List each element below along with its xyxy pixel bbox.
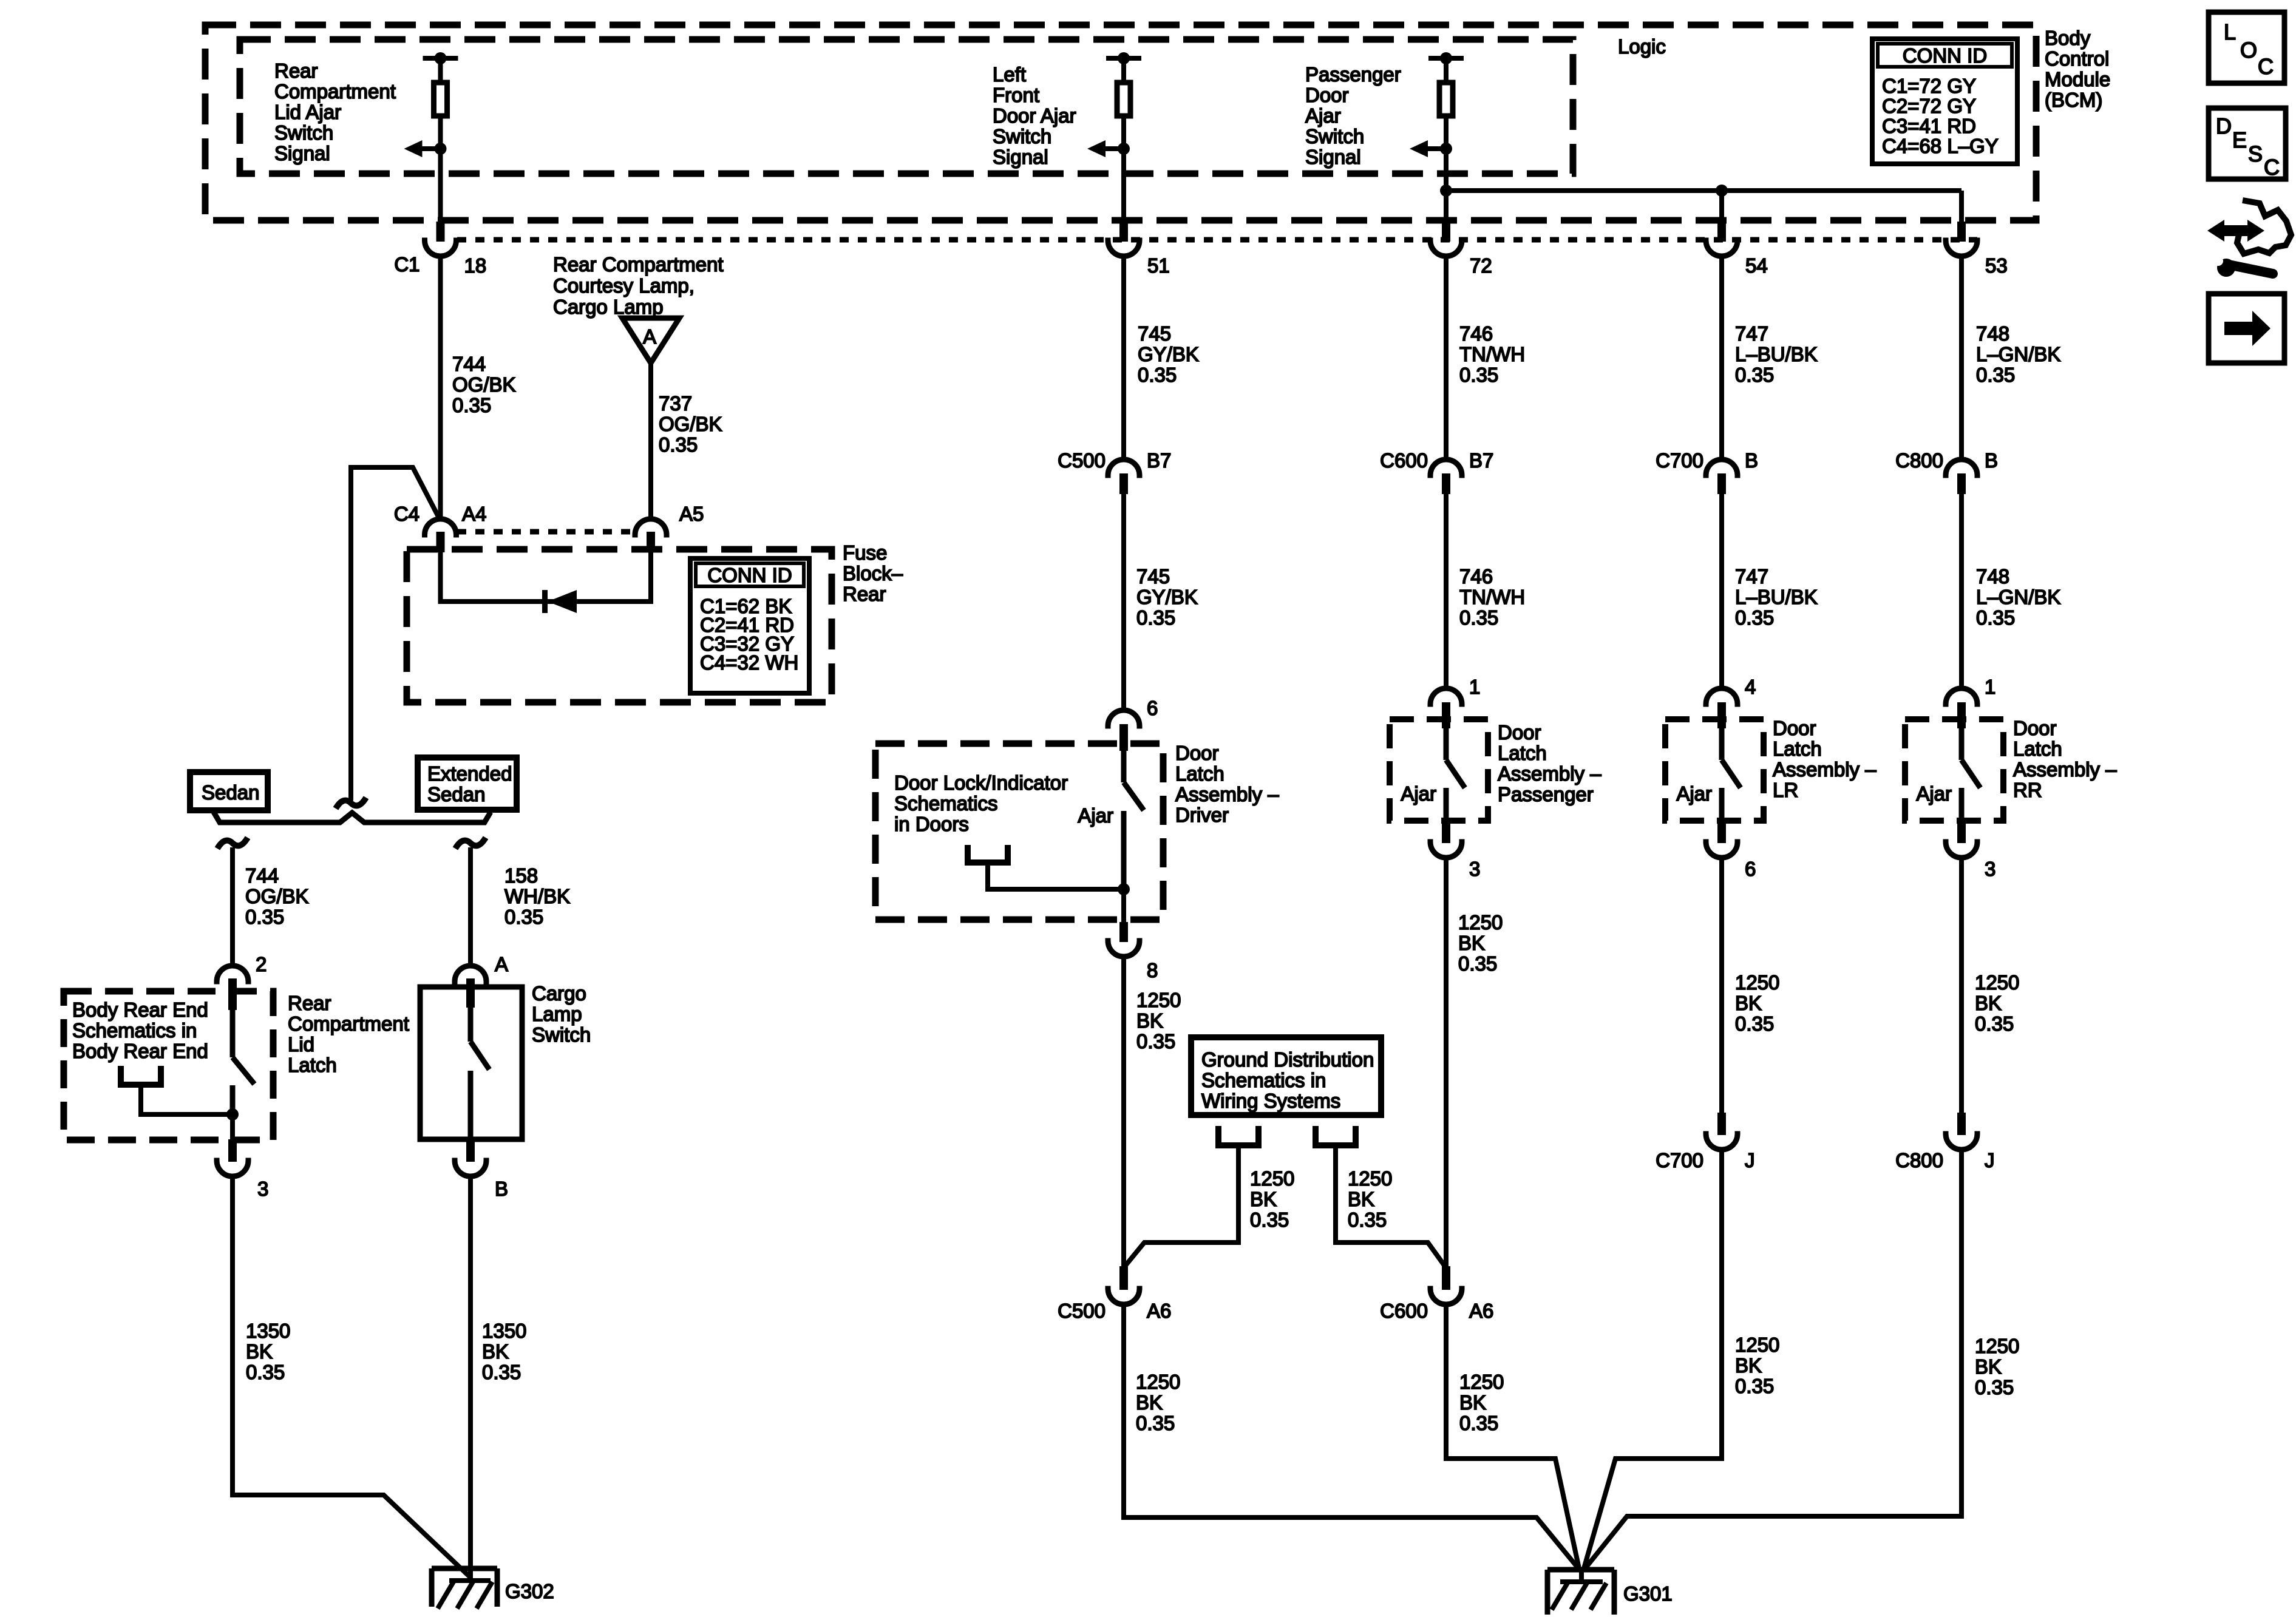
wire reference link — [988, 863, 1124, 889]
svg-text:Assembly –: Assembly – — [1175, 783, 1279, 805]
svg-text:0.35: 0.35 — [1348, 1209, 1387, 1231]
svg-text:Door: Door — [1773, 717, 1816, 739]
svg-text:0.35: 0.35 — [1250, 1209, 1289, 1231]
svg-text:A: A — [643, 325, 656, 348]
svg-text:C: C — [2264, 155, 2280, 180]
svg-text:0.35: 0.35 — [1459, 606, 1498, 629]
svg-text:0.35: 0.35 — [1735, 1012, 1774, 1035]
svg-text:6: 6 — [1745, 858, 1756, 880]
svg-text:BK: BK — [246, 1340, 273, 1363]
svg-text:Door Ajar: Door Ajar — [993, 104, 1076, 127]
svg-text:C4=32 WH: C4=32 WH — [700, 651, 798, 674]
svg-text:Signal: Signal — [274, 142, 330, 164]
resistor BCM pull-up at x=725.5 — [434, 83, 447, 116]
svg-text:CONN ID: CONN ID — [1903, 44, 1987, 67]
svg-text:4: 4 — [1745, 676, 1756, 698]
svg-text:G302: G302 — [505, 1580, 554, 1602]
svg-text:J: J — [1985, 1149, 1995, 1171]
svg-text:C700: C700 — [1656, 449, 1703, 472]
svg-text:1250: 1250 — [1458, 911, 1503, 934]
connector pin 3 (RR latch out) — [1957, 821, 1966, 843]
svg-text:A6: A6 — [1469, 1300, 1493, 1322]
svg-text:Ground Distribution: Ground Distribution — [1201, 1048, 1374, 1071]
svg-text:Switch: Switch — [1305, 125, 1364, 147]
svg-text:Passenger: Passenger — [1305, 63, 1401, 86]
svg-text:C800: C800 — [1895, 1149, 1943, 1171]
svg-text:737: 737 — [659, 392, 692, 415]
svg-text:2: 2 — [256, 953, 267, 975]
svg-text:Lid Ajar: Lid Ajar — [274, 101, 341, 123]
connector pin 54 (BCM) — [1717, 222, 1726, 242]
connector pin 51 (BCM) — [1119, 222, 1128, 242]
reference symbol ground distribution (left) — [1218, 1126, 1258, 1145]
svg-text:745: 745 — [1138, 322, 1171, 345]
svg-text:B7: B7 — [1469, 449, 1493, 472]
connector pin 8 (driver latch out) — [1121, 889, 1126, 922]
svg-text:Switch: Switch — [274, 121, 333, 144]
wire 745 GY/BK from pin 51 — [1121, 256, 1126, 459]
svg-text:Fuse: Fuse — [843, 541, 887, 564]
svg-text:BK: BK — [1458, 932, 1485, 954]
connector pin 72 (BCM) — [1442, 222, 1450, 242]
junction dot at C700 branch — [1716, 185, 1728, 197]
wire 746 TN/WH from pin 72 — [1444, 256, 1449, 459]
door latch dashed box — [1905, 719, 2003, 821]
svg-text:S: S — [2248, 141, 2263, 166]
svg-text:Ajar: Ajar — [1401, 782, 1436, 805]
svg-text:BK: BK — [1459, 1391, 1486, 1414]
svg-text:Block–: Block– — [843, 562, 903, 585]
svg-text:1250: 1250 — [1975, 971, 2019, 994]
BCM inner dashed box (Logic) — [240, 39, 1573, 174]
wire 747 L-BU/BK from pin 54 — [1719, 256, 1724, 459]
wire — [438, 149, 443, 223]
connector C500 pin A6 — [1119, 1266, 1128, 1290]
wire 744 OG/BK from C1-18 — [438, 256, 443, 519]
svg-text:Ajar: Ajar — [1305, 104, 1341, 127]
svg-text:72: 72 — [1470, 254, 1492, 277]
svg-text:0.35: 0.35 — [659, 433, 698, 456]
svg-text:746: 746 — [1459, 565, 1493, 588]
svg-text:C4=68 L–GY: C4=68 L–GY — [1882, 135, 1999, 157]
svg-text:1350: 1350 — [246, 1320, 290, 1342]
signal arrow (to BCM logic) — [1428, 146, 1446, 151]
svg-text:1250: 1250 — [1459, 1371, 1504, 1393]
svg-text:B: B — [1745, 449, 1758, 472]
svg-text:L–BU/BK: L–BU/BK — [1735, 586, 1818, 608]
svg-text:Sedan: Sedan — [427, 783, 485, 805]
label box Sedan — [190, 772, 268, 810]
svg-text:BK: BK — [1250, 1188, 1277, 1210]
svg-text:1250: 1250 — [1735, 971, 1779, 994]
svg-text:1250: 1250 — [1975, 1335, 2019, 1357]
wire BCM internal bus to pins 54/53 — [1446, 188, 1961, 193]
svg-text:Door: Door — [1175, 742, 1219, 764]
svg-text:BK: BK — [1136, 1009, 1163, 1032]
svg-text:0.35: 0.35 — [1975, 1012, 2014, 1035]
svg-text:745: 745 — [1136, 565, 1170, 588]
wire — [1444, 118, 1449, 151]
wire break symbol (option split) — [336, 798, 366, 808]
svg-text:747: 747 — [1735, 565, 1768, 588]
svg-text:B: B — [495, 1178, 508, 1200]
resistor BCM pull-up at x=2382 — [1439, 83, 1453, 116]
svg-text:WH/BK: WH/BK — [504, 885, 570, 907]
svg-text:G301: G301 — [1623, 1582, 1673, 1605]
wire reference link — [141, 1085, 233, 1114]
svg-text:C700: C700 — [1656, 1149, 1703, 1171]
ground G302 — [432, 1568, 497, 1607]
switch blade (Ajar) — [1444, 728, 1449, 760]
svg-text:Lamp: Lamp — [532, 1003, 582, 1025]
svg-text:Sedan: Sedan — [202, 781, 259, 804]
svg-text:Latch: Latch — [2013, 737, 2062, 760]
svg-text:0.35: 0.35 — [504, 906, 543, 928]
svg-text:Switch: Switch — [532, 1023, 591, 1046]
brace (vehicle option split) — [214, 812, 491, 822]
svg-text:OG/BK: OG/BK — [452, 373, 516, 396]
svg-text:0.35: 0.35 — [1136, 1412, 1175, 1434]
svg-text:L–GN/BK: L–GN/BK — [1976, 343, 2060, 365]
svg-text:L–BU/BK: L–BU/BK — [1735, 343, 1818, 365]
svg-text:Rear: Rear — [288, 992, 331, 1014]
svg-text:J: J — [1745, 1149, 1755, 1171]
svg-text:Door Lock/Indicator: Door Lock/Indicator — [894, 771, 1068, 794]
svg-text:Compartment: Compartment — [288, 1012, 409, 1035]
node BCM internal supply bar at x=2382 — [1428, 56, 1464, 61]
svg-text:B7: B7 — [1147, 449, 1171, 472]
svg-text:Compartment: Compartment — [274, 80, 396, 103]
svg-text:0.35: 0.35 — [1138, 364, 1177, 386]
node BCM internal supply bar at x=1851 — [1106, 56, 1141, 61]
wire — [438, 118, 443, 151]
wire 158 WH/BK — [468, 847, 473, 966]
wire branch to Sedan brace — [351, 467, 439, 801]
svg-text:Switch: Switch — [993, 125, 1051, 147]
switch blade (Ajar) — [1959, 728, 1965, 760]
svg-text:TN/WH: TN/WH — [1459, 343, 1525, 365]
wire 1250 BK to G301 — [1124, 1304, 1578, 1568]
svg-text:Schematics in: Schematics in — [72, 1019, 197, 1042]
svg-text:C1=72 GY: C1=72 GY — [1882, 75, 1976, 97]
diode (one-way link, pointing left) — [542, 590, 548, 613]
wire 1250 BK below pin 6 — [1719, 858, 1724, 1113]
wire break symbol (Extended Sedan branch) — [455, 838, 486, 849]
svg-text:1350: 1350 — [482, 1320, 526, 1342]
connector C700 pin J — [1717, 1113, 1726, 1135]
wire 1250 BK to G301 — [1446, 1304, 1579, 1568]
svg-text:OG/BK: OG/BK — [659, 413, 722, 435]
wire 1250 BK below pin 8 — [1121, 957, 1126, 1266]
svg-text:0.35: 0.35 — [1735, 1375, 1774, 1397]
switch cargo lamp — [468, 1008, 474, 1042]
svg-text:C3=41 RD: C3=41 RD — [1882, 115, 1976, 137]
svg-text:Ajar: Ajar — [1676, 782, 1712, 805]
svg-text:53: 53 — [1985, 254, 2008, 277]
svg-text:E: E — [2232, 127, 2247, 152]
door latch dashed box — [1665, 719, 1764, 821]
fuse block connector face dotted line — [457, 529, 634, 535]
svg-text:Door: Door — [2013, 717, 2057, 739]
svg-text:Door: Door — [1305, 84, 1349, 106]
svg-text:748: 748 — [1976, 322, 2009, 345]
svg-text:O: O — [2240, 38, 2257, 63]
table CONN ID (BCM) — [1872, 39, 2017, 164]
svg-text:BK: BK — [1136, 1391, 1163, 1414]
svg-text:746: 746 — [1459, 322, 1493, 345]
Body Rear End Schematics dashed box — [64, 991, 273, 1140]
svg-text:54: 54 — [1745, 254, 1768, 277]
svg-text:0.35: 0.35 — [452, 394, 491, 416]
svg-text:0.35: 0.35 — [246, 1361, 285, 1383]
svg-text:1250: 1250 — [1136, 989, 1181, 1011]
svg-text:Latch: Latch — [288, 1054, 337, 1076]
wire 1250 BK from reference to passenger ground wire — [1336, 1145, 1445, 1266]
svg-text:BK: BK — [1975, 1355, 2002, 1378]
svg-text:744: 744 — [452, 353, 486, 375]
svg-text:LR: LR — [1773, 779, 1798, 801]
icon double arrow with hand and wrench — [2222, 225, 2250, 236]
svg-text:747: 747 — [1735, 322, 1768, 345]
wire fuse block internal link A4 to A5 — [441, 552, 651, 602]
svg-text:BK: BK — [1975, 992, 2002, 1014]
wire 1350 BK (lid latch to G302) — [233, 1176, 470, 1577]
switch blade (Ajar) — [1719, 728, 1725, 760]
wire 748 below C800 — [1959, 494, 1964, 688]
door latch dashed box — [1390, 719, 1488, 821]
svg-text:0.35: 0.35 — [1976, 606, 2015, 629]
connector C800 pin J — [1957, 1113, 1966, 1135]
junction dot — [226, 1108, 239, 1120]
svg-text:C500: C500 — [1058, 449, 1106, 472]
svg-text:Assembly –: Assembly – — [2013, 758, 2117, 781]
svg-text:C2=72 GY: C2=72 GY — [1882, 95, 1976, 117]
svg-text:L–GN/BK: L–GN/BK — [1976, 586, 2060, 608]
icon right arrow box — [2209, 294, 2284, 363]
svg-text:C500: C500 — [1058, 1300, 1106, 1322]
svg-text:Lid: Lid — [288, 1033, 314, 1056]
svg-text:Control: Control — [2045, 47, 2109, 70]
svg-text:1: 1 — [1469, 676, 1480, 698]
svg-text:B: B — [1985, 449, 1998, 472]
svg-text:Courtesy Lamp,: Courtesy Lamp, — [553, 274, 695, 297]
svg-text:Module: Module — [2045, 68, 2110, 90]
svg-text:D: D — [2216, 114, 2232, 138]
connector pin 3 (passenger latch out) — [1442, 821, 1450, 843]
icon DESC box — [2209, 108, 2286, 179]
connector pin 3 (lid latch out) — [230, 1114, 235, 1139]
circuit continuation triangle A (to courtesy lamp) — [622, 318, 679, 363]
Fuse Block - Rear dashed box — [407, 549, 832, 702]
svg-text:A6: A6 — [1147, 1300, 1171, 1322]
wire 748 L-GN/BK from pin 53 — [1959, 256, 1964, 459]
svg-text:Assembly –: Assembly – — [1498, 762, 1601, 785]
svg-text:CONN ID: CONN ID — [707, 564, 792, 586]
wire — [1444, 149, 1449, 223]
svg-text:C: C — [2258, 54, 2274, 79]
reference symbol to Body Rear End schematic — [121, 1066, 161, 1085]
wire — [1121, 118, 1126, 151]
svg-text:51: 51 — [1147, 254, 1170, 277]
svg-text:BK: BK — [482, 1340, 509, 1363]
svg-text:Body Rear End: Body Rear End — [72, 998, 208, 1021]
svg-text:Cargo Lamp: Cargo Lamp — [553, 296, 664, 318]
BCM connector face dotted line — [457, 237, 1977, 243]
svg-text:Ajar: Ajar — [1078, 804, 1113, 827]
svg-text:0.35: 0.35 — [1459, 1412, 1498, 1434]
svg-text:1: 1 — [1985, 676, 1995, 698]
svg-text:C600: C600 — [1380, 1300, 1428, 1322]
svg-text:0.35: 0.35 — [1458, 952, 1497, 975]
svg-text:in Doors: in Doors — [894, 813, 969, 835]
icon LOC box — [2209, 12, 2284, 83]
switch driver door ajar — [1121, 751, 1127, 782]
svg-text:Body: Body — [2045, 27, 2091, 49]
svg-text:1250: 1250 — [1136, 1371, 1180, 1393]
svg-text:Rear Compartment: Rear Compartment — [553, 253, 724, 276]
BCM outer dashed box (Body Control Module) — [205, 25, 2036, 220]
svg-text:748: 748 — [1976, 565, 2009, 588]
svg-text:L: L — [2224, 19, 2236, 44]
svg-text:Latch: Latch — [1773, 737, 1822, 760]
resistor BCM pull-up at x=1851 — [1117, 83, 1130, 116]
wire 1250 BK from reference to driver ground wire — [1125, 1145, 1238, 1266]
svg-text:BK: BK — [1735, 992, 1762, 1014]
svg-text:1250: 1250 — [1735, 1334, 1779, 1356]
signal arrow (to BCM logic) — [1106, 146, 1124, 151]
svg-text:Latch: Latch — [1498, 742, 1547, 764]
svg-text:0.35: 0.35 — [1976, 364, 2015, 386]
svg-text:BK: BK — [1348, 1188, 1374, 1210]
svg-text:158: 158 — [504, 864, 538, 887]
svg-text:BK: BK — [1735, 1354, 1762, 1377]
svg-text:3: 3 — [1985, 858, 1995, 880]
svg-text:Passenger: Passenger — [1498, 783, 1594, 805]
svg-text:A4: A4 — [462, 503, 486, 525]
svg-text:Cargo: Cargo — [532, 982, 586, 1005]
svg-text:Ajar: Ajar — [1916, 782, 1952, 805]
svg-text:1250: 1250 — [1348, 1167, 1392, 1190]
wire 737 OG/BK — [648, 363, 653, 519]
connector pin 53 (BCM) — [1957, 222, 1966, 242]
svg-text:0.35: 0.35 — [1975, 1376, 2014, 1398]
svg-text:OG/BK: OG/BK — [245, 885, 309, 907]
svg-text:Door: Door — [1498, 721, 1541, 744]
svg-text:Signal: Signal — [1305, 146, 1361, 168]
wire 1250 BK to G301 — [1585, 1150, 1961, 1568]
wire 745 GY/BK below C500 — [1121, 494, 1126, 710]
svg-text:3: 3 — [1469, 858, 1480, 880]
svg-text:18: 18 — [464, 254, 487, 277]
svg-text:Latch: Latch — [1175, 762, 1224, 785]
svg-text:0.35: 0.35 — [1136, 1030, 1175, 1053]
wire 1250 BK below pin 3 — [1444, 858, 1449, 1266]
svg-text:A5: A5 — [679, 503, 704, 525]
wire break symbol (Sedan branch) — [217, 838, 248, 849]
table CONN ID (Fuse Block - Rear) — [690, 558, 809, 693]
svg-text:Rear: Rear — [274, 59, 318, 82]
svg-text:Schematics in: Schematics in — [1201, 1069, 1326, 1091]
svg-text:Wiring Systems: Wiring Systems — [1201, 1090, 1340, 1112]
ground G301 — [1579, 1568, 1584, 1582]
svg-text:(BCM): (BCM) — [2045, 89, 2102, 111]
node BCM internal supply bar at x=725.5 — [423, 56, 458, 61]
svg-text:3: 3 — [257, 1178, 268, 1200]
svg-text:Body Rear End: Body Rear End — [72, 1040, 208, 1062]
Door Lock/Indicator + driver latch dashed box — [875, 744, 1163, 920]
svg-text:Front: Front — [993, 84, 1039, 106]
svg-text:C600: C600 — [1380, 449, 1428, 472]
svg-text:C1: C1 — [394, 253, 419, 276]
svg-text:Rear: Rear — [843, 583, 886, 605]
svg-text:GY/BK: GY/BK — [1136, 586, 1198, 608]
svg-text:C4: C4 — [394, 503, 419, 525]
svg-text:1250: 1250 — [1250, 1167, 1294, 1190]
svg-text:6: 6 — [1147, 697, 1158, 719]
connector pin 6 (LR latch out) — [1717, 821, 1726, 843]
wire 1250 BK to G301 — [1584, 1150, 1722, 1568]
svg-text:Assembly –: Assembly – — [1773, 758, 1877, 781]
svg-text:Schematics: Schematics — [894, 792, 998, 815]
Cargo Lamp Switch box — [420, 987, 522, 1139]
reference symbol to Door Lock/Indicator schematic — [968, 845, 1008, 863]
svg-text:Left: Left — [993, 63, 1026, 86]
svg-text:Logic: Logic — [1618, 35, 1666, 58]
svg-text:0.35: 0.35 — [1136, 606, 1175, 629]
svg-text:GY/BK: GY/BK — [1138, 343, 1199, 365]
wire 744 Sedan branch — [230, 847, 235, 966]
svg-text:C800: C800 — [1895, 449, 1943, 472]
svg-text:TN/WH: TN/WH — [1459, 586, 1525, 608]
wire 746 TN/WH below C600 — [1444, 494, 1449, 688]
svg-text:0.35: 0.35 — [1735, 606, 1774, 629]
svg-text:0.35: 0.35 — [1459, 364, 1498, 386]
wire 747 below C700 — [1719, 494, 1724, 688]
wire — [1121, 149, 1126, 223]
svg-text:744: 744 — [245, 864, 279, 887]
svg-text:A: A — [495, 953, 508, 975]
wire 1350 BK (cargo lamp switch to G302) — [468, 1176, 473, 1581]
svg-text:0.35: 0.35 — [1735, 364, 1774, 386]
svg-text:Signal: Signal — [993, 146, 1048, 168]
switch lid ajar (Rear Compartment Lid Latch) — [230, 1010, 236, 1057]
reference symbol ground distribution (right) — [1316, 1126, 1356, 1145]
label box Extended Sedan — [418, 758, 517, 810]
connector C600 pin A6 — [1442, 1266, 1450, 1290]
connector pin 18 (BCM) — [436, 222, 445, 242]
junction dot — [1118, 883, 1130, 895]
svg-text:8: 8 — [1147, 959, 1158, 981]
svg-text:0.35: 0.35 — [245, 906, 284, 928]
svg-text:0.35: 0.35 — [482, 1361, 521, 1383]
svg-text:Extended: Extended — [427, 762, 512, 785]
junction dot at C600 branch — [1440, 185, 1452, 197]
label box Ground Distribution Schematics in Wiring Systems — [1191, 1037, 1381, 1115]
svg-text:RR: RR — [2013, 779, 2042, 801]
connector pin B (cargo lamp switch out) — [466, 1139, 475, 1162]
svg-text:Driver: Driver — [1175, 804, 1229, 826]
wire 1250 BK below pin 3 — [1959, 858, 1964, 1113]
signal arrow (to BCM logic) — [423, 146, 441, 151]
